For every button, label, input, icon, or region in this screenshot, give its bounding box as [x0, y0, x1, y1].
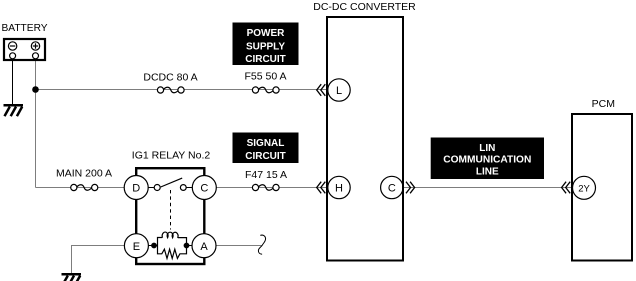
wire battery negative to ground: [12, 59, 14, 105]
svg-text:BATTERY: BATTERY: [2, 23, 48, 34]
wire stub E to coil: [148, 245, 158, 247]
svg-text:H: H: [335, 183, 343, 195]
terminal H: [328, 176, 350, 198]
ground relay E: [62, 274, 82, 281]
wire main line (corner to relay D): [36, 187, 126, 189]
relay switch blade: [161, 178, 183, 187]
svg-text:LINE: LINE: [476, 167, 499, 178]
svg-text:PCM: PCM: [592, 98, 615, 110]
relay switch contact right: [180, 185, 186, 191]
DC-DC converter box: [327, 17, 403, 261]
svg-text:C: C: [388, 183, 396, 195]
svg-text:SUPPLY: SUPPLY: [246, 41, 285, 52]
power supply circuit label box: [233, 23, 299, 66]
wire relay C to H connector: [216, 187, 327, 189]
label PCM: [592, 98, 615, 110]
terminal 2Y: [573, 176, 596, 199]
svg-text:CIRCUIT: CIRCUIT: [245, 151, 286, 162]
relay terminal A: [192, 234, 216, 258]
fuse MAIN 200 A: [71, 184, 98, 190]
LIN communication line label box: [431, 138, 544, 180]
svg-text:IG1 RELAY No.2: IG1 RELAY No.2: [132, 150, 211, 162]
connector chevrons into L: [317, 84, 326, 96]
svg-text:E: E: [133, 241, 140, 253]
relay switch contact left: [154, 185, 160, 191]
label IG1 RELAY No.2: [132, 150, 211, 162]
svg-text:DCDC 80 A: DCDC 80 A: [143, 72, 197, 84]
wire stub coil to A: [187, 245, 193, 247]
fuse F47 15 A: [252, 184, 279, 190]
label DC-DC CONVERTER: [313, 1, 416, 13]
relay terminal E: [124, 234, 148, 258]
fuse F55 50 A: [252, 87, 279, 93]
svg-text:D: D: [132, 183, 140, 195]
terminal L: [328, 79, 350, 101]
relay terminal C: [192, 176, 216, 200]
svg-text:F55 50 A: F55 50 A: [244, 71, 286, 83]
label BATTERY: [2, 23, 48, 34]
signal circuit label box: [233, 133, 299, 164]
svg-text:LIN: LIN: [479, 143, 495, 154]
label MAIN 200 A: [56, 168, 112, 180]
svg-text:SIGNAL: SIGNAL: [247, 138, 285, 149]
relay IG1 No.2 box: [136, 168, 204, 264]
relay coil assembly: [158, 232, 187, 258]
wire LIN line C to 2Y: [404, 187, 572, 189]
wire break continuation after A: [258, 235, 265, 254]
fuse DCDC 80 A: [157, 87, 184, 93]
label DCDC 80 A: [143, 72, 197, 84]
terminal C converter output: [381, 176, 403, 198]
wire stub D to contact: [148, 187, 155, 189]
ground battery: [4, 105, 24, 116]
relay actuator dashed link: [170, 190, 172, 230]
junction relay coil right node: [184, 243, 190, 249]
connector chevrons into 2Y: [562, 182, 571, 194]
wire stub contact to C: [186, 187, 193, 189]
junction battery positive node: [32, 86, 39, 93]
wire battery positive vertical: [35, 59, 37, 188]
svg-text:A: A: [200, 241, 208, 253]
svg-text:C: C: [200, 183, 208, 195]
relay terminal D: [124, 176, 148, 200]
svg-text:DC-DC CONVERTER: DC-DC CONVERTER: [313, 1, 416, 13]
svg-text:L: L: [336, 85, 342, 97]
PCM box: [572, 114, 632, 261]
connector chevrons out of C: [406, 182, 415, 194]
wire relay A continuation: [216, 245, 262, 247]
svg-text:POWER: POWER: [247, 28, 286, 39]
svg-text:COMMUNICATION: COMMUNICATION: [443, 155, 531, 166]
wire relay E to ground: [72, 246, 126, 274]
svg-text:CIRCUIT: CIRCUIT: [245, 54, 286, 65]
wire power supply line (node to L connector): [36, 89, 328, 91]
svg-text:MAIN 200 A: MAIN 200 A: [56, 168, 112, 180]
label F55 50 A: [244, 71, 286, 83]
label F47 15 A: [245, 169, 287, 181]
svg-text:F47 15 A: F47 15 A: [245, 169, 287, 181]
junction relay coil left node: [151, 243, 157, 249]
battery: [4, 39, 45, 60]
svg-text:2Y: 2Y: [578, 183, 590, 194]
connector chevrons into H: [317, 182, 326, 194]
